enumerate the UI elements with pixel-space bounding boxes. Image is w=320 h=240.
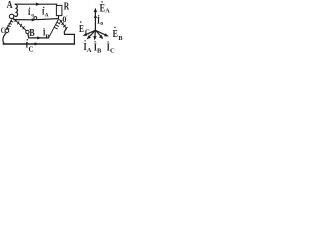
winding C (hatched diagonal coil) <box>6 20 12 29</box>
phasor vector E_C <box>85 30 96 35</box>
label I_A <box>84 40 92 54</box>
terminal C circle <box>5 29 9 33</box>
svg-text:R: R <box>64 1 70 12</box>
label I_B <box>43 28 51 41</box>
label E_C <box>79 21 90 36</box>
winding A (phase A coil) <box>15 4 17 16</box>
wire phase C bottom <box>3 43 74 45</box>
label I_A <box>42 7 49 19</box>
phasor vector I_A <box>88 30 95 37</box>
svg-text:′: ′ <box>66 15 68 21</box>
arrow current I0 on neutral wire <box>32 18 36 21</box>
break circle in neutral <box>34 17 37 20</box>
wire phase B <box>28 34 49 38</box>
svg-text:A: A <box>45 12 49 18</box>
neutral wire right segment <box>37 19 58 20</box>
node 0' label <box>62 15 68 24</box>
wire load C to bottom wire <box>64 29 74 44</box>
svg-text:A: A <box>105 8 110 15</box>
neutral wire left segment <box>14 19 33 21</box>
label I_0 <box>97 15 103 27</box>
svg-text:o: o <box>100 21 103 27</box>
svg-text:B: B <box>118 35 122 42</box>
svg-text:A: A <box>87 47 92 54</box>
wire terminal C to bottom wire <box>3 32 7 43</box>
svg-text:C: C <box>110 48 115 55</box>
terminal B circle <box>26 30 29 33</box>
svg-text:B: B <box>97 47 102 54</box>
label I_C <box>107 41 115 54</box>
neutral point 0 (star point circle) <box>9 14 13 18</box>
arrow current IB on wire <box>37 36 41 39</box>
svg-text:E: E <box>113 28 118 40</box>
wire coil A bottom to neutral point <box>14 15 16 18</box>
label I_0 <box>28 7 35 18</box>
svg-text:C: C <box>85 30 90 37</box>
svg-text:C: C <box>29 47 34 54</box>
arrow current IA on wire <box>36 3 40 6</box>
load resistor phase B (hatched diagonal) <box>49 19 60 38</box>
phasor vector E_B <box>96 30 107 35</box>
load resistor phase A box R <box>56 5 62 15</box>
label I_C <box>25 39 33 53</box>
label E_B <box>113 27 123 42</box>
phasor vector I_C <box>96 30 102 37</box>
phasor vector I_B <box>94 30 97 38</box>
svg-text:E: E <box>79 24 84 35</box>
wire R box to node 0' <box>57 16 59 19</box>
phasor vector E_A <box>94 11 96 31</box>
label I_B <box>94 41 102 54</box>
phasor arrow I_0 <box>94 14 97 18</box>
winding B (hatched diagonal coil) <box>13 18 26 30</box>
arrow current IC on bottom wire <box>35 42 39 45</box>
svg-text:A: A <box>7 0 13 11</box>
label E_A <box>100 1 111 14</box>
load resistor phase C (hatched diagonal) <box>60 20 68 30</box>
wire phase A top <box>15 4 56 5</box>
